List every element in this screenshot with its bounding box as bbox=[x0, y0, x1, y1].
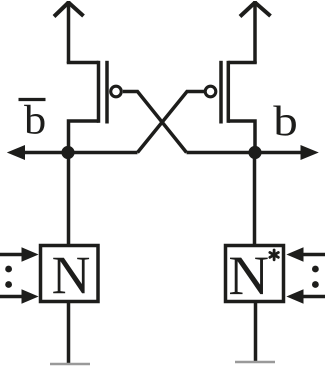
ground tick left bbox=[50, 363, 90, 366]
junction node b bbox=[248, 146, 261, 159]
junction node bbar bbox=[61, 146, 74, 159]
wire node bbar to box N bbox=[67, 153, 71, 246]
power supply arrow (VDD) left bbox=[54, 1, 84, 63]
bitline b (right, with arrow) bbox=[187, 145, 319, 160]
wire M1 drain lead bbox=[69, 121, 99, 153]
label b bbox=[273, 105, 296, 135]
ellipsis dots left bbox=[5, 266, 12, 288]
input arrow 1 into N* bbox=[286, 247, 325, 262]
label N* bbox=[230, 250, 278, 294]
input arrow 2 into N bbox=[0, 289, 39, 304]
wire box N* to ground stub bbox=[254, 302, 258, 362]
transistor M1 (PMOS, left) bbox=[99, 61, 122, 124]
label bbar bbox=[19, 100, 46, 134]
wire M2 drain lead bbox=[228, 121, 255, 153]
power supply arrow (VDD) right bbox=[240, 1, 271, 63]
wire box N to ground stub bbox=[67, 302, 71, 364]
input arrow 2 into N* bbox=[286, 289, 325, 304]
wire M1 source lead bbox=[69, 62, 99, 63]
input arrow 1 into N bbox=[0, 247, 39, 262]
wire M2 source lead bbox=[228, 62, 255, 63]
bitline bbar (left, with arrow) bbox=[7, 145, 138, 160]
ground tick right bbox=[235, 361, 275, 364]
label N bbox=[53, 258, 89, 294]
box N bbox=[41, 246, 99, 302]
wire M2 gate cross-couple to node bbar bbox=[138, 92, 205, 153]
wire M1 gate cross-couple to node b bbox=[123, 92, 187, 153]
box N* bbox=[226, 246, 284, 302]
ellipsis dots right bbox=[312, 266, 319, 288]
transistor M2 (PMOS, right) bbox=[205, 61, 228, 124]
wire node b to box N* bbox=[253, 153, 257, 246]
